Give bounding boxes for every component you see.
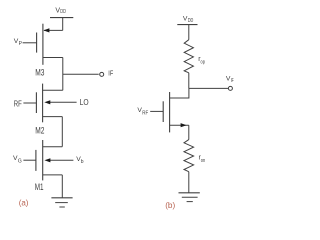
svg-text:IF: IF: [108, 69, 113, 78]
transistor RF gate bar: [162, 101, 164, 122]
transistor M1 gate bar: [35, 150, 37, 171]
node VG gate label: [13, 155, 22, 164]
wire source lead with NMOS arrow: [170, 123, 189, 127]
wire M3 gate lead: [23, 42, 37, 44]
wire source to resistor ron: [188, 125, 190, 139]
wire M2 drain lead: [43, 89, 63, 91]
resistor ron zigzag: [184, 140, 194, 172]
svg-text:M1: M1: [35, 182, 44, 192]
wire M3 drain lead: [43, 57, 63, 59]
svg-text:RF: RF: [142, 110, 148, 116]
transistor M1 channel bar: [42, 140, 44, 180]
wire drain stub of RF transistor: [170, 88, 189, 98]
wire ron to ground: [188, 172, 190, 193]
svg-text:b: b: [81, 159, 84, 165]
wire VDD to resistor rop: [188, 25, 190, 40]
wire M2 gate lead: [23, 102, 36, 104]
transistor M2 gate bar: [35, 92, 37, 113]
node IF output terminal circle: [100, 72, 104, 76]
wire M2 source to M1 drain rail: [61, 117, 63, 147]
wire M1 source lead: [43, 174, 63, 176]
svg-text:M3: M3: [35, 67, 44, 77]
transistor M3 gate bar: [36, 33, 38, 53]
wire M1 source to ground: [61, 175, 63, 198]
transistor RF channel bar: [169, 92, 171, 132]
node VIF output terminal circle: [228, 86, 232, 90]
svg-text:IF: IF: [231, 78, 234, 84]
ground symbol (a): [51, 198, 72, 207]
wire rop to VIF node: [188, 73, 190, 89]
wire M1 drain lead: [43, 146, 63, 148]
node VDD label (right): [183, 16, 194, 25]
power supply VDD bar (left): [50, 17, 73, 19]
node VP gate label: [14, 38, 23, 47]
svg-text:M2: M2: [35, 125, 44, 135]
svg-text:on: on: [201, 158, 206, 164]
transistor M2 channel bar: [42, 84, 44, 123]
resistor rop zigzag: [184, 40, 193, 73]
wire VDD to M3 source: [62, 18, 64, 31]
svg-text:LO: LO: [80, 98, 89, 107]
svg-text:op: op: [201, 60, 206, 66]
svg-text:DD: DD: [60, 9, 66, 15]
wire M3 source lead with PMOS arrow: [43, 28, 62, 32]
wire Vb line with arrow into M1: [44, 158, 73, 162]
wire LO line with arrow into M2: [44, 100, 76, 104]
resistor ron value label: [199, 155, 206, 164]
node VIF label: [226, 76, 234, 85]
wire M1 gate lead: [23, 159, 36, 161]
wire M3 drain to M2 drain rail: [62, 58, 64, 91]
svg-text:(b): (b): [165, 201, 175, 210]
node VDD label (left): [55, 8, 66, 16]
node Vb label: [76, 156, 84, 165]
svg-text:DD: DD: [188, 18, 194, 24]
wire RF gate lead: [150, 110, 163, 112]
node VRF gate label: [137, 107, 148, 116]
wire IF output line: [63, 73, 99, 75]
svg-text:RF: RF: [14, 98, 22, 108]
wire VIF output line: [189, 87, 229, 89]
power supply VDD bar (right): [177, 24, 197, 26]
svg-text:(a): (a): [19, 199, 29, 208]
resistor rop value label: [198, 56, 205, 65]
transistor M3 channel bar: [42, 24, 44, 65]
wire M2 source lead: [43, 116, 63, 118]
svg-text:G: G: [18, 158, 22, 164]
ground symbol (b): [179, 193, 200, 202]
